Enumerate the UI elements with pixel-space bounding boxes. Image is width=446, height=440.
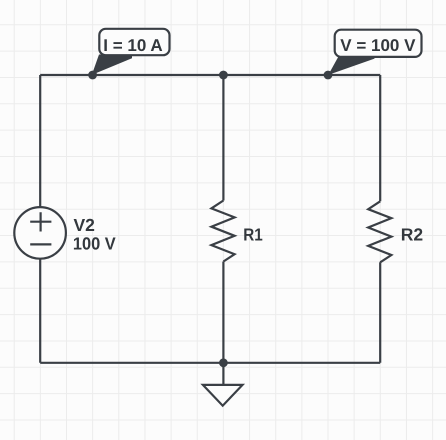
wire R2 bottom lead: [379, 262, 381, 363]
callout V = 100 V pointer wedge: [328, 56, 374, 75]
callout V = 100 V box: [335, 30, 422, 57]
junction dot R1 top: [219, 71, 228, 80]
V2 minus sign: [30, 243, 51, 245]
junction dot node B (V probe): [324, 71, 333, 80]
svg-text:V2: V2: [74, 215, 96, 235]
voltage source V2: [14, 207, 66, 259]
junction dot node A (I probe): [88, 71, 97, 80]
svg-text:V = 100 V: V = 100 V: [340, 36, 416, 55]
wire left upper (V2 + terminal to top net): [39, 75, 41, 207]
resistor R1: [211, 201, 234, 262]
wire R1 top lead: [222, 75, 224, 201]
svg-text:R1: R1: [243, 225, 263, 245]
junction dot ground: [219, 358, 228, 367]
V2 plus sign: [30, 212, 51, 231]
ground stub wire: [222, 363, 224, 385]
wire R1 bottom lead: [222, 262, 224, 363]
wire top: node between V2, R1, R2: [40, 74, 380, 76]
resistor R2: [368, 201, 391, 262]
svg-text:R2: R2: [401, 224, 424, 244]
callout I = 10 A pointer wedge: [92, 55, 132, 75]
svg-text:I = 10 A: I = 10 A: [103, 36, 162, 55]
wire R2 top lead: [379, 75, 381, 201]
svg-text:100 V: 100 V: [73, 234, 116, 254]
ground symbol: [203, 385, 243, 406]
callout I = 10 A box: [99, 29, 169, 55]
wire bottom: ground net: [40, 362, 380, 364]
wire left lower (V2 - terminal to bottom net): [39, 259, 41, 363]
